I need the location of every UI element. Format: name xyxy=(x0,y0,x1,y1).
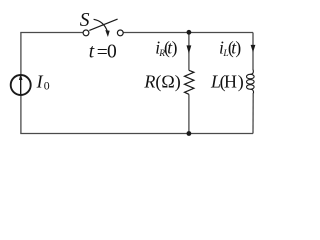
switch motion arrow xyxy=(94,19,110,37)
junction dot bottom xyxy=(187,131,192,136)
wire bottom xyxy=(20,133,253,135)
current source I0 xyxy=(11,74,31,96)
wire top-right segment xyxy=(123,32,253,34)
current arrow iR xyxy=(187,45,192,53)
wire top-left segment xyxy=(20,32,83,34)
svg-text:iL(t): iL(t) xyxy=(219,38,241,60)
inductor L coil xyxy=(247,70,255,93)
svg-text:I0: I0 xyxy=(36,71,50,92)
wire right side xyxy=(252,33,254,134)
current arrow iL xyxy=(251,45,256,53)
svg-text:t=0: t=0 xyxy=(89,41,117,63)
wire left side xyxy=(20,33,22,134)
resistor R zigzag xyxy=(185,70,194,94)
svg-text:R(Ω): R(Ω) xyxy=(143,72,180,93)
wire resistor branch xyxy=(188,33,190,134)
switch S contacts xyxy=(83,30,123,36)
svg-text:iR(t): iR(t) xyxy=(155,38,177,60)
svg-text:S: S xyxy=(80,10,90,31)
svg-text:L(H): L(H) xyxy=(210,72,244,93)
switch blade xyxy=(89,19,117,30)
junction dot top xyxy=(187,30,192,35)
